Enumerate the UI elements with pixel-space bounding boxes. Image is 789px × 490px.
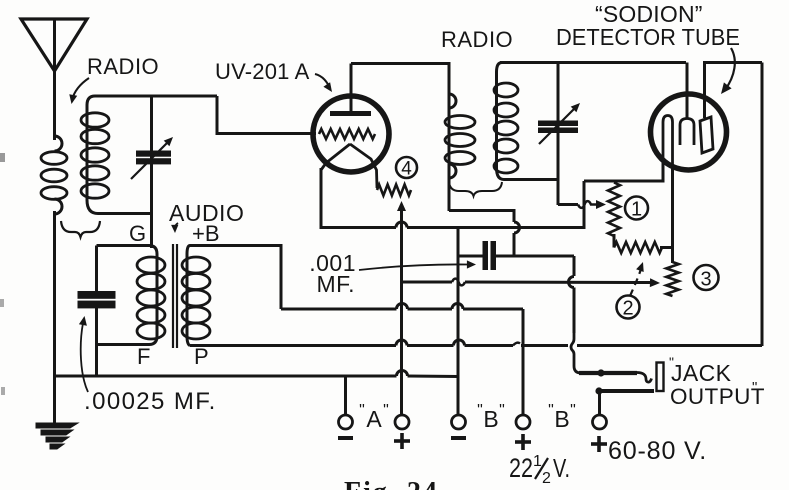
minus A- <box>338 436 353 440</box>
plus 60-80 <box>591 436 607 452</box>
wire pot3 wiper <box>402 278 661 287</box>
wire antenna lead <box>53 71 56 140</box>
label 4 circled <box>396 157 417 180</box>
arrow rheostat wiper <box>397 201 406 211</box>
wire C3 left <box>458 255 483 258</box>
arrow to C3 <box>359 260 476 270</box>
wire C3 right <box>496 255 574 258</box>
label 60-80V <box>608 437 707 465</box>
svg-text:4: 4 <box>401 159 412 180</box>
coil L5 (audio primary) <box>97 246 166 345</box>
svg-text:RADIO: RADIO <box>441 27 513 52</box>
label DETECTOR TUBE <box>556 24 740 50</box>
terminal A- <box>339 415 353 429</box>
label +B <box>192 221 220 246</box>
svg-text:OUTPUT: OUTPUT <box>670 384 765 409</box>
brace under T2 <box>449 182 502 196</box>
svg-text:DETECTOR TUBE: DETECTOR TUBE <box>556 24 740 50</box>
capacitor C4 .00025 <box>78 291 116 308</box>
label F <box>137 344 150 369</box>
arrow to T1 <box>69 78 89 104</box>
label G <box>129 221 146 246</box>
U1 filament <box>321 144 377 188</box>
svg-text:RADIO: RADIO <box>87 54 159 79</box>
wire T2 to detector <box>500 61 686 64</box>
V2 cathode lead <box>686 63 689 120</box>
wire plate top <box>703 61 762 64</box>
V2 filament hairpin <box>663 116 673 180</box>
wire R2 to V2 leg <box>660 246 674 249</box>
wire U1 plate to T2 <box>351 64 449 98</box>
label AUDIO <box>169 200 244 226</box>
wire bus3 (plate return) <box>190 340 762 346</box>
svg-text:JACK: JACK <box>671 360 732 386</box>
resistor R2 <box>614 242 662 253</box>
coil L1 (T1 primary) <box>41 136 67 214</box>
plus A+ <box>394 433 410 449</box>
label 2 circled <box>617 296 640 320</box>
svg-text:": " <box>570 402 576 419</box>
svg-text:G: G <box>129 221 146 246</box>
potentiometer R1 <box>608 183 620 237</box>
wire grid riser <box>150 96 153 248</box>
svg-text:": " <box>499 402 505 419</box>
svg-text:2: 2 <box>622 298 633 320</box>
arrow C2 adjust <box>539 103 580 144</box>
ground <box>36 423 78 449</box>
capacitor C3 .001 <box>483 241 497 270</box>
minus B- <box>451 436 466 440</box>
svg-text:60-80 V.: 60-80 V. <box>608 437 707 465</box>
label JACK OUTPUT <box>669 354 765 409</box>
wire ground lead <box>53 211 56 424</box>
svg-text:": " <box>359 402 365 419</box>
svg-text:1: 1 <box>631 199 642 221</box>
wire jack riser <box>569 256 582 373</box>
wire bus2 (+B) <box>281 304 523 417</box>
caption Fig <box>344 477 439 490</box>
wire U1 filament left leg <box>320 168 323 229</box>
variable capacitor C1 <box>136 151 171 165</box>
arrow R2 wiper (dashed) <box>630 262 644 296</box>
svg-text:": " <box>477 402 483 419</box>
svg-text:2: 2 <box>542 470 551 487</box>
label RADIO (T1) <box>87 54 159 79</box>
terminal B- <box>452 415 466 429</box>
svg-text:+B: +B <box>192 221 220 246</box>
wire V2 filament to pot1 <box>662 160 665 181</box>
svg-text:": " <box>752 379 757 396</box>
jack ring contact <box>595 387 654 394</box>
label UV-201A <box>215 59 310 84</box>
label .00025 MF <box>84 388 217 415</box>
variable capacitor C2 <box>538 121 578 134</box>
specks <box>0 153 5 395</box>
tube V2 Sodion envelope <box>651 94 727 170</box>
svg-text:.00025 MF.: .00025 MF. <box>84 388 217 415</box>
U1 grid <box>319 129 375 139</box>
svg-text:A: A <box>366 406 382 432</box>
antenna <box>21 19 87 72</box>
svg-text:P: P <box>194 344 209 369</box>
wire A- lead <box>344 376 347 415</box>
V2 plate lead <box>703 63 706 119</box>
wire pot1 wiper <box>558 200 606 209</box>
V2 plate <box>700 117 713 153</box>
wire to C3 junction <box>513 233 516 257</box>
label RADIO (T2) <box>441 27 513 52</box>
svg-text:3: 3 <box>700 269 711 291</box>
brace under T1 <box>61 221 100 237</box>
arrow AUDIO <box>171 223 178 233</box>
coil L2 (T1 secondary) <box>81 96 217 214</box>
label "B" 2 <box>548 402 576 432</box>
label "B" 1 <box>477 402 505 432</box>
tube U1 UV-201A envelope <box>313 96 389 172</box>
label .001 MF <box>309 250 356 297</box>
wire grid to tube <box>217 96 316 134</box>
svg-text:B: B <box>554 406 569 432</box>
wire V2 leg down <box>671 164 674 263</box>
U1 plate <box>330 111 371 116</box>
terminal A+ <box>395 415 409 429</box>
svg-text:": " <box>548 402 554 419</box>
core <box>173 244 177 348</box>
label "SODION" <box>595 1 703 27</box>
label 3 circled <box>694 265 719 291</box>
arrow to detector tube <box>721 48 735 94</box>
arrow to C4 <box>79 316 88 392</box>
svg-text:MF.: MF. <box>316 271 355 297</box>
wire ground bus <box>55 371 459 377</box>
wire B- riser <box>457 228 460 417</box>
svg-text:": " <box>669 354 674 370</box>
wire C2 riser <box>557 63 560 206</box>
hop over bus1 <box>514 222 520 233</box>
arrow C1 adjust <box>131 137 173 179</box>
label "A" <box>359 402 389 432</box>
coil L6 (audio secondary) <box>182 246 210 346</box>
label 1 circled <box>625 197 648 221</box>
wire R1 to R2 <box>613 234 616 248</box>
wire A+ riser <box>400 209 403 416</box>
label P <box>194 344 209 369</box>
wire cap riser <box>95 246 98 378</box>
label 22.5V <box>509 453 570 487</box>
svg-text:22: 22 <box>509 453 533 483</box>
coil L4 (T2 secondary) <box>494 63 558 180</box>
V2 cathode <box>680 119 694 146</box>
potentiometer R3 <box>666 262 678 296</box>
jack tip contact <box>579 369 652 382</box>
svg-text:": " <box>383 402 389 419</box>
svg-text:F: F <box>137 344 150 369</box>
svg-text:B: B <box>483 406 498 432</box>
wire 60-80 riser <box>598 391 601 416</box>
wire right side <box>761 63 764 347</box>
terminal B60 <box>593 415 607 429</box>
jack sleeve <box>657 363 664 392</box>
svg-text:UV-201 A: UV-201 A <box>215 59 310 84</box>
svg-text:1: 1 <box>533 453 542 470</box>
terminal B+ <box>516 415 530 429</box>
rheostat R4 <box>377 185 411 196</box>
wire bus1 (filament -) <box>321 222 584 228</box>
arrow to UV-201A <box>315 74 332 92</box>
svg-text:V.: V. <box>553 453 570 483</box>
wire T2 primary bottom <box>449 211 514 223</box>
U1 plate lead <box>350 64 353 112</box>
wire +B feed <box>190 246 281 310</box>
wire pot1 top <box>584 180 665 183</box>
coil L3 (T2 primary) <box>445 94 475 211</box>
wire pot1 riser <box>583 181 586 229</box>
svg-text:Fig. 24: Fig. 24 <box>344 477 439 490</box>
plus B+ <box>515 434 531 450</box>
